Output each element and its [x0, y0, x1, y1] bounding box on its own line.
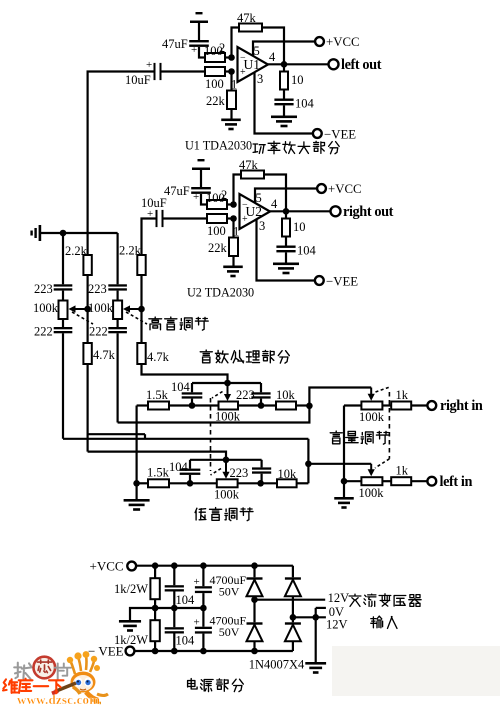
- svg-text:50V: 50V: [219, 625, 240, 639]
- svg-text:104: 104: [176, 634, 196, 648]
- svg-text:10k: 10k: [278, 467, 298, 481]
- svg-text:100k: 100k: [88, 301, 114, 315]
- svg-text:10uF: 10uF: [141, 196, 167, 210]
- svg-text:100k: 100k: [359, 410, 385, 424]
- svg-text:left in: left in: [440, 474, 473, 490]
- svg-text:47uF: 47uF: [164, 184, 190, 198]
- svg-text:222: 222: [89, 325, 108, 339]
- svg-text:50V: 50V: [219, 585, 240, 599]
- svg-text:U2: U2: [246, 204, 263, 219]
- svg-text:12V: 12V: [326, 618, 348, 632]
- svg-text:4: 4: [271, 197, 278, 211]
- svg-text:4: 4: [269, 50, 276, 64]
- svg-text:10k: 10k: [276, 388, 296, 402]
- svg-text:5: 5: [254, 44, 260, 58]
- svg-text:2.2k: 2.2k: [65, 244, 88, 258]
- svg-text:10: 10: [291, 73, 304, 87]
- svg-text:+: +: [146, 59, 152, 71]
- svg-text:+: +: [191, 44, 197, 56]
- svg-text:1k: 1k: [396, 388, 409, 402]
- svg-text:4.7k: 4.7k: [93, 348, 116, 362]
- svg-text:U2 TDA2030: U2 TDA2030: [187, 286, 254, 300]
- svg-text:+: +: [194, 576, 200, 588]
- svg-text:47uF: 47uF: [162, 37, 188, 51]
- svg-text:+: +: [194, 617, 200, 629]
- svg-text:104: 104: [295, 97, 315, 111]
- svg-text:222: 222: [34, 325, 53, 339]
- svg-text:12V: 12V: [328, 591, 350, 605]
- svg-text:right in: right in: [440, 398, 483, 414]
- svg-text:right out: right out: [343, 204, 394, 220]
- svg-text:+VCC: +VCC: [90, 559, 124, 574]
- svg-text:100k: 100k: [359, 486, 385, 500]
- svg-text:1.5k: 1.5k: [146, 388, 169, 402]
- svg-text:104: 104: [297, 244, 317, 258]
- svg-text:104: 104: [171, 380, 191, 394]
- svg-text:22k: 22k: [206, 94, 226, 108]
- svg-text:1k: 1k: [396, 464, 409, 478]
- svg-text:+VCC: +VCC: [326, 35, 360, 49]
- svg-text:U1: U1: [244, 57, 261, 72]
- svg-text:+: +: [193, 191, 199, 203]
- svg-text:10uF: 10uF: [125, 73, 151, 87]
- svg-text:+VCC: +VCC: [328, 182, 362, 196]
- svg-text:3: 3: [259, 219, 265, 233]
- svg-text:1k/2W: 1k/2W: [114, 582, 148, 596]
- svg-text:104: 104: [176, 593, 196, 607]
- svg-text:5: 5: [256, 191, 262, 205]
- svg-text:104: 104: [169, 460, 189, 474]
- svg-text:47k: 47k: [237, 11, 257, 25]
- svg-text:left out: left out: [341, 57, 382, 73]
- svg-text:−VEE: −VEE: [326, 275, 358, 289]
- svg-text:3: 3: [257, 72, 263, 86]
- svg-text:2: 2: [219, 41, 225, 55]
- svg-text:47k: 47k: [239, 158, 259, 172]
- svg-text:100k: 100k: [214, 488, 240, 502]
- svg-text:1N4007X4: 1N4007X4: [249, 658, 305, 672]
- svg-text:223: 223: [236, 388, 255, 402]
- svg-text:1.5k: 1.5k: [147, 466, 170, 480]
- svg-text:−VEE: −VEE: [324, 128, 356, 142]
- svg-text:100: 100: [207, 224, 226, 238]
- svg-text:1: 1: [233, 225, 239, 239]
- svg-text:22k: 22k: [208, 241, 228, 255]
- svg-text:2.2k: 2.2k: [119, 244, 142, 258]
- svg-text:U1 TDA2030: U1 TDA2030: [185, 139, 252, 153]
- svg-text:www.dzsc.com: www.dzsc.com: [17, 692, 100, 705]
- svg-text:223: 223: [88, 282, 107, 296]
- svg-text:100k: 100k: [33, 301, 59, 315]
- svg-text:100: 100: [205, 77, 224, 91]
- svg-text:2: 2: [221, 188, 227, 202]
- svg-text:4.7k: 4.7k: [147, 350, 170, 364]
- svg-text:1: 1: [231, 78, 237, 92]
- svg-text:10: 10: [293, 220, 306, 234]
- svg-text:223: 223: [230, 466, 249, 480]
- svg-text:223: 223: [34, 282, 53, 296]
